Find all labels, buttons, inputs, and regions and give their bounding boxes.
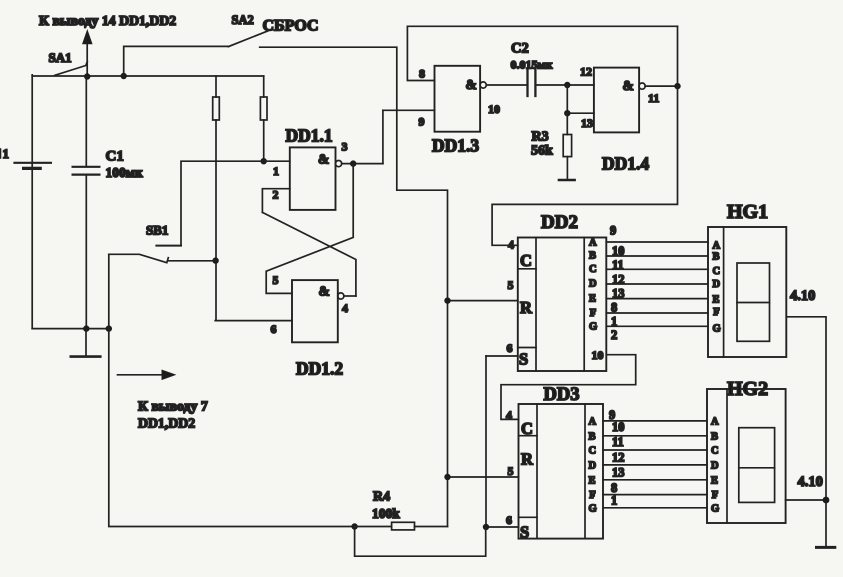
svg-text:A: A [589,238,597,249]
svg-text:B: B [713,252,720,263]
display HG2 [707,389,786,523]
svg-text:&: & [319,284,330,299]
wire DD1.3 pin8 stub [407,26,434,80]
svg-text:6: 6 [507,341,513,355]
svg-text:4: 4 [508,238,514,252]
svg-text:СБРОС: СБРОС [263,18,319,35]
wire DD2 pin6 S stub [486,355,518,357]
wire DD2 F to HG1 [606,312,708,314]
switch SA2 [228,31,267,47]
wire C2 to pin12 [537,84,594,86]
svg-text:B: B [589,431,596,442]
svg-text:5: 5 [508,464,514,478]
wire S line down [485,356,487,527]
svg-text:К выводу 14 DD1,DD2: К выводу 14 DD1,DD2 [39,13,176,28]
counter DD3 [519,404,604,539]
wire bottom-left rail [32,328,109,330]
capacitor C2 [528,70,536,96]
wire DD1.3 pin9 stub [383,109,435,111]
svg-text:G: G [711,503,719,514]
DD3 output letters A-G [589,416,597,514]
svg-text:1: 1 [611,494,617,508]
wire cross diagonal B (DD1.1 out to pin5) [266,164,353,294]
wire left vertical to bottom [109,254,355,526]
svg-text:F: F [712,490,718,501]
svg-text:4: 4 [342,301,348,315]
switch SB1 contact bar [156,245,181,247]
svg-text:DD1,DD2: DD1,DD2 [138,416,195,431]
svg-text:SA2: SA2 [232,13,254,27]
svg-text:A: A [589,416,597,427]
svg-text:A: A [713,240,721,251]
svg-text:F: F [713,307,719,318]
node SB1 to R1 [212,257,218,263]
svg-text:S: S [520,523,529,542]
ground bar below C1 [71,329,101,357]
svg-text:HG1: HG1 [727,201,768,223]
svg-text:E: E [589,294,596,305]
wire DD2 G to HG1 [606,325,708,327]
node at SA1/arrow [84,73,90,79]
node pin13 [564,110,570,116]
wire DD3 F to HG2 [603,494,707,496]
svg-text:F: F [589,490,595,501]
svg-text:DD2: DD2 [541,212,578,233]
op-amp U: NAND gate DD1.4 [594,68,645,133]
switch SA1 [55,62,88,76]
svg-text:56k: 56k [531,144,553,159]
HG2 input letters A-G [711,416,719,514]
svg-text:2: 2 [611,328,617,342]
svg-text:C: C [520,251,532,270]
wire DD1.3 out to C2 [486,84,526,86]
svg-text:C: C [589,264,597,275]
wire DD2 E to HG1 [606,298,708,300]
wire pin13 stub [567,85,594,113]
resistor R2 (pull-up right) [260,76,267,161]
wire bottom loop R4 to S [355,527,486,557]
wire top feedback [407,25,677,27]
svg-text:13: 13 [612,466,625,480]
svg-text:F: F [590,308,596,319]
wire DD3 E to HG2 [603,479,707,481]
DD2 output letters A-G [589,238,597,333]
wire HG1 output [786,317,826,547]
wire DD2 D to HG1 [606,283,708,285]
node DD1.4 output [674,83,680,89]
node bottom rail to R4 [351,523,357,529]
svg-text:DD1.3: DD1.3 [432,136,479,156]
counter DD2 [518,238,607,372]
wire SB1 to R1 line [168,260,216,262]
switch SB1 blade [109,254,169,262]
svg-text:4.10: 4.10 [798,474,823,490]
svg-text:2: 2 [273,188,279,202]
svg-text:C2: C2 [511,41,529,57]
wire DD3 pin5 R stub [448,476,519,478]
capacitor C1 [73,77,100,329]
wire cross diagonal A (pin2 to DD1.2 out) [262,212,356,296]
DD2 right pin number labels [610,224,625,343]
arrow to pin 14 [83,31,92,77]
svg-text:D: D [713,279,721,290]
wire DD2 B to HG1 [606,255,708,257]
svg-text:DD1.1: DD1.1 [286,126,333,146]
wire DD2 A to HG1 [606,241,708,243]
svg-text:B: B [589,251,596,262]
svg-text:E: E [711,475,718,486]
svg-text:10: 10 [592,348,604,362]
svg-text:&: & [466,77,477,92]
svg-text:11: 11 [648,91,659,105]
svg-text:HG2: HG2 [727,378,768,400]
svg-text:4.10: 4.10 [790,288,815,304]
op-amp U: NAND gate DD1.1 [290,147,342,210]
node S line DD3 [483,524,489,530]
svg-text:12: 12 [612,451,625,465]
svg-text:R: R [521,450,534,469]
wire HG2 output [786,499,826,501]
op-amp U: NAND gate DD1.2 [292,280,344,342]
svg-text:G: G [589,322,597,333]
HG1 input letters A-G [713,240,721,334]
ground [817,546,835,549]
svg-text:6: 6 [271,322,277,336]
wire DD2 C to HG1 [606,268,708,270]
svg-text:A: A [711,416,719,427]
wire DD3 A to HG2 [603,420,707,422]
svg-text:100k: 100k [372,506,400,521]
wire top rail [32,75,264,77]
node left rail corner [106,325,112,331]
svg-text:0.015мк: 0.015мк [511,58,553,72]
svg-text:D: D [589,279,597,290]
wire DD1.4 output [645,85,677,87]
wire pin6 DD1.2 [215,320,292,322]
wire DD1.4 out down to DD2 C [492,86,677,245]
svg-text:R3: R3 [532,130,549,145]
svg-text:&: & [318,152,329,167]
wire DD3 D to HG2 [603,464,707,466]
svg-text:B: B [711,431,718,442]
svg-text:E: E [713,294,720,305]
svg-text:9: 9 [610,224,616,238]
svg-text:13: 13 [581,116,593,130]
battery label partial mark [0,149,2,158]
wire feedback up [677,26,679,86]
wire DD1.2 output [344,295,356,297]
resistor R1 (pull-up left) [213,76,220,321]
wire DD3 B to HG2 [603,435,707,437]
svg-text:DD3: DD3 [544,385,580,405]
node HG2 out to ground line [823,497,830,504]
node R2 to pin1 wire [261,158,267,164]
svg-text:C: C [713,266,721,277]
battery G1 [15,75,51,329]
svg-text:&: & [623,78,634,93]
wire DD3 C to HG2 [603,449,707,451]
svg-text:C1: C1 [106,149,124,165]
svg-text:C: C [521,419,533,438]
svg-text:SB1: SB1 [146,223,168,238]
wire SA2 branch up [124,46,229,76]
wire DD3 G to HG2 [603,507,707,509]
svg-text:1: 1 [273,164,279,178]
svg-text:6: 6 [506,513,512,527]
svg-text:К выводу 7: К выводу 7 [138,399,208,414]
node R line DD2 [444,297,450,303]
wire DD2 pin5 R stub [448,300,518,302]
svg-text:5: 5 [508,278,514,292]
svg-text:D: D [711,460,719,471]
svg-text:5: 5 [273,273,279,287]
svg-text:1: 1 [3,146,10,161]
svg-text:12: 12 [580,65,592,79]
svg-text:G: G [589,503,597,514]
svg-text:4: 4 [506,408,512,422]
resistor R3 [559,113,575,180]
svg-text:8: 8 [419,67,425,81]
svg-text:R4: R4 [373,490,390,505]
node SA2 branch [121,73,127,79]
wire pin1 DD1.1 with SB1 contact drop [181,161,290,245]
DD3 right pin number labels [609,408,625,508]
wire pin2 stub [262,189,289,213]
svg-text:C: C [589,446,597,457]
svg-text:DD1.4: DD1.4 [602,154,649,174]
svg-text:R: R [520,298,533,317]
svg-text:G: G [713,323,721,334]
svg-text:D: D [589,460,597,471]
svg-text:C: C [711,446,719,457]
wire DD3 pin6 S stub [486,526,519,528]
node R line DD3 [444,474,450,480]
svg-text:10: 10 [612,420,625,434]
svg-text:E: E [589,475,596,486]
op-amp U: NAND gate DD1.3 [435,66,487,132]
svg-text:3: 3 [342,140,348,154]
display HG1 [708,227,786,357]
arrow to pin 7 [118,370,175,379]
svg-text:100мк: 100мк [106,165,143,180]
wire DD1.1 output [342,163,383,165]
svg-text:9: 9 [419,115,425,129]
wire output up to DD1.3 pin9 [382,110,384,163]
node C1 bottom [83,325,89,331]
svg-text:DD1.2: DD1.2 [296,359,343,379]
wire DD2 pin10 to DD3 C [501,355,636,420]
svg-text:SA1: SA1 [49,50,72,65]
svg-text:S: S [519,350,528,369]
svg-text:11: 11 [612,435,624,449]
node C2/R3 [564,82,570,88]
svg-text:10: 10 [488,102,500,116]
wire reset line [260,47,448,526]
node DD1.1 output [350,160,356,166]
resistor R4 [355,522,448,530]
